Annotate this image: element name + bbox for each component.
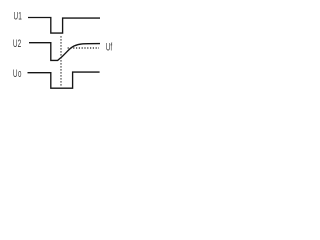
background	[0, 0, 126, 100]
svg-text:o: o	[18, 67, 21, 79]
svg-text:Uf: Uf	[106, 41, 113, 53]
node Uf dotted asymptote line	[68, 47, 99, 49]
wire U0 output waveform	[28, 72, 100, 88]
svg-text:U1: U1	[14, 10, 22, 22]
wire U2 waveform with exponential recovery	[29, 43, 100, 61]
wire U1 waveform	[28, 18, 100, 34]
svg-text:U: U	[13, 67, 18, 79]
wire dotted timing reference vertical	[60, 36, 62, 87]
svg-text:U2: U2	[13, 37, 21, 49]
